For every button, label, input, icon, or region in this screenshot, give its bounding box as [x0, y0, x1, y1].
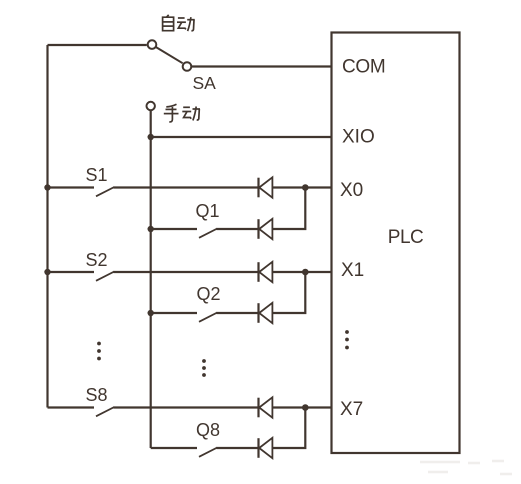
switch S1: [48, 187, 259, 196]
diode VD2: [259, 219, 273, 239]
wire: X7 node down to Q8 branch: [272, 408, 305, 449]
label 自动 (auto position): [163, 15, 195, 31]
svg-text:Q1: Q1: [196, 201, 220, 221]
svg-text:COM: COM: [342, 57, 385, 78]
wire: X1 node down to Q2 branch: [272, 272, 305, 313]
ellipsis: S column: [97, 342, 101, 361]
junction: left bus / S1: [44, 184, 50, 190]
svg-text:S2: S2: [86, 250, 108, 270]
diode VD1: [259, 177, 273, 197]
switch S2: [48, 272, 259, 281]
svg-text:PLC: PLC: [388, 227, 423, 248]
faint watermark smudges (decorative): [420, 461, 512, 474]
manual branch terminal circle: [147, 102, 155, 110]
label 手动 (manual position): [164, 104, 200, 122]
switch Q1: [151, 229, 258, 238]
svg-text:XIO: XIO: [342, 127, 375, 148]
diode VD4: [259, 303, 273, 323]
wire: VD5 to X7 pin: [272, 406, 331, 408]
svg-text:S8: S8: [86, 385, 108, 405]
wire: VD3 to X1 pin: [272, 271, 331, 273]
switch SA: [148, 40, 192, 71]
svg-text:X7: X7: [340, 399, 363, 420]
svg-text:S1: S1: [86, 165, 108, 185]
junction: X0 node: [302, 184, 309, 191]
wire: SA to COM pin: [192, 65, 332, 67]
PLC box U1: [332, 33, 460, 454]
svg-text:SA: SA: [193, 73, 217, 93]
wire: X0 node down to Q1 branch: [272, 188, 305, 230]
wire: manual vertical bus: [150, 110, 152, 448]
junction: manual bus / Q2: [148, 310, 154, 316]
switch Q2: [151, 313, 258, 322]
diode VD6: [259, 438, 273, 458]
svg-text:X1: X1: [341, 260, 364, 281]
ellipsis: PLC inputs: [345, 330, 349, 349]
junction: manual bus / Q1: [148, 226, 154, 232]
switch S8: [48, 407, 259, 416]
wire: top horizontal to SA: [48, 44, 147, 46]
diode VD5: [259, 397, 273, 417]
ellipsis: Q column: [202, 359, 206, 377]
switch Q8: [151, 448, 258, 457]
junction: X7 node: [302, 404, 309, 411]
svg-text:Q2: Q2: [197, 284, 221, 304]
junction: X1 node: [302, 269, 309, 276]
wire: VD1 to X0 pin: [272, 186, 331, 188]
junction: left bus / S2: [44, 269, 50, 275]
svg-text:X0: X0: [340, 180, 363, 201]
diode VD3: [259, 262, 273, 282]
wire: left vertical bus: [46, 45, 48, 408]
svg-text:Q8: Q8: [196, 420, 220, 440]
wire: XIO branch: [151, 136, 332, 138]
junction: manual bus / XIO: [148, 134, 154, 140]
